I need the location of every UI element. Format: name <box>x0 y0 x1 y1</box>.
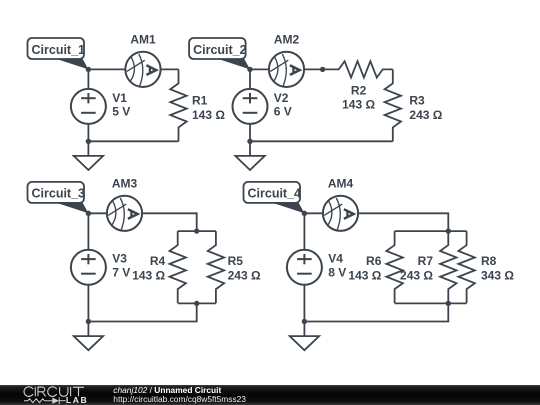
node junction top parallel c3 <box>194 228 199 233</box>
wire top elbow c4 <box>395 230 467 232</box>
svg-text:AM4: AM4 <box>328 176 354 190</box>
svg-text:Circuit_1: Circuit_1 <box>32 43 86 57</box>
svg-text:143 Ω: 143 Ω <box>192 108 225 122</box>
resistor R7 <box>440 231 456 303</box>
label R6 143 ohm <box>348 254 381 282</box>
svg-text:143 Ω: 143 Ω <box>342 97 375 111</box>
wire bottom rail c2 <box>250 140 393 142</box>
svg-text:R8: R8 <box>481 254 497 268</box>
wire V2 to bottom rail <box>249 124 251 141</box>
resistor R1 <box>170 69 186 141</box>
wire V1 to bottom rail <box>87 124 89 141</box>
wire node to V2 <box>249 69 251 89</box>
svg-text:http://circuitlab.com/cq8w5ft5: http://circuitlab.com/cq8w5ft5mss23 <box>113 394 246 404</box>
node junction top parallel c4 <box>446 228 451 233</box>
wire node to AM2 <box>250 68 269 70</box>
svg-text:V4: V4 <box>328 252 343 266</box>
label R7 243 ohm <box>400 254 433 282</box>
wire node to V4 <box>303 213 305 250</box>
wire AM1 to R1 <box>161 68 179 70</box>
wire V4 to bottom rail <box>303 285 305 322</box>
wire AM3 to corner <box>142 213 197 231</box>
wire node to V1 <box>87 69 89 89</box>
svg-text:243 Ω: 243 Ω <box>409 108 442 122</box>
wire bottom elbow c3 <box>178 302 216 304</box>
wire top elbow c3 <box>178 230 216 232</box>
node label Circuit_4 <box>244 182 305 213</box>
svg-text:243 Ω: 243 Ω <box>228 268 261 282</box>
svg-text:V3: V3 <box>112 252 127 266</box>
svg-text:8 V: 8 V <box>328 266 346 280</box>
wire node to V3 <box>87 213 89 250</box>
svg-text:143 Ω: 143 Ω <box>348 268 381 282</box>
node junction bottom parallel c3 <box>194 301 199 306</box>
svg-text:Circuit_4: Circuit_4 <box>248 187 302 201</box>
logo CIRCUIT skeleton letters <box>24 387 84 397</box>
node junction bottom c2 <box>247 139 252 144</box>
wire parallel to bottom rail c3 <box>88 303 196 321</box>
svg-text:143 Ω: 143 Ω <box>132 268 165 282</box>
ground c2 <box>235 141 264 170</box>
svg-text:R6: R6 <box>366 254 382 268</box>
svg-text:AM3: AM3 <box>112 176 138 190</box>
resistor R6 <box>386 231 402 303</box>
node label Circuit_3 <box>28 182 89 213</box>
svg-text:6 V: 6 V <box>274 105 292 119</box>
node A (Circuit_1 net junction) <box>86 67 91 72</box>
svg-text:AM1: AM1 <box>130 33 156 47</box>
ground c3 <box>74 322 103 351</box>
node label Circuit_2 <box>189 38 250 69</box>
svg-text:R2: R2 <box>351 83 367 97</box>
svg-text:V2: V2 <box>274 91 289 105</box>
node C (Circuit_3 net junction) <box>86 211 91 216</box>
ammeter AM2 <box>269 52 304 87</box>
svg-text:R7: R7 <box>418 254 434 268</box>
wire node to AM3 <box>88 212 107 214</box>
svg-text:R4: R4 <box>150 254 166 268</box>
voltage source V4 <box>287 250 322 285</box>
ground c4 <box>290 322 319 351</box>
node junction AM2-R2 <box>320 67 325 72</box>
wire AM4 to corner <box>358 213 448 231</box>
svg-text:AM2: AM2 <box>274 33 300 47</box>
resistor R2 (horizontal) <box>323 61 393 77</box>
voltage source V1 <box>71 89 106 124</box>
svg-text:343 Ω: 343 Ω <box>481 268 514 282</box>
ammeter AM1 <box>125 52 160 87</box>
wire bottom rail c1 <box>88 140 178 142</box>
wire V3 to bottom rail <box>87 285 89 322</box>
wire node to AM4 <box>304 212 323 214</box>
svg-text:Circuit_3: Circuit_3 <box>32 187 86 201</box>
wire parallel to bottom rail c4 <box>304 303 448 321</box>
wire AM2 to junction <box>304 68 323 70</box>
label R3 243 ohm <box>409 93 442 121</box>
wire node to AM1 <box>88 68 125 70</box>
svg-text:R3: R3 <box>409 93 425 107</box>
svg-text:243 Ω: 243 Ω <box>400 268 433 282</box>
label V1 5V <box>112 91 130 119</box>
node label Circuit_1 <box>28 38 89 69</box>
label R1 143 ohm <box>192 93 225 121</box>
ammeter AM4 <box>323 196 358 231</box>
label R8 343 ohm <box>481 254 514 282</box>
node junction bottom c4 <box>302 319 307 324</box>
svg-text:R1: R1 <box>192 93 208 107</box>
label V4 8V <box>328 252 346 280</box>
label V3 7V <box>112 252 130 280</box>
svg-text:LAB: LAB <box>66 395 88 405</box>
svg-text:Circuit_2: Circuit_2 <box>193 43 247 57</box>
wire bottom elbow c4 <box>395 302 467 304</box>
label R4 143 ohm <box>132 254 165 282</box>
resistor R4 <box>170 231 186 303</box>
svg-text:R5: R5 <box>228 254 244 268</box>
ammeter AM3 <box>107 196 142 231</box>
node junction bottom c3 <box>86 319 91 324</box>
svg-text:V1: V1 <box>112 91 127 105</box>
voltage source V2 <box>233 89 268 124</box>
node junction bottom parallel c4 <box>446 301 451 306</box>
resistor R5 <box>208 231 224 303</box>
node B (Circuit_2 net junction) <box>247 67 252 72</box>
ground c1 <box>74 141 103 170</box>
node junction bottom c1 <box>86 139 91 144</box>
label R2 143 ohm <box>342 83 375 111</box>
logo resistor-diode glyph <box>24 397 66 404</box>
label V2 6V <box>274 91 292 119</box>
label R5 243 ohm <box>228 254 261 282</box>
resistor R8 <box>458 231 474 303</box>
svg-text:5 V: 5 V <box>112 105 130 119</box>
resistor R3 <box>385 69 401 141</box>
node D (Circuit_4 net junction) <box>302 211 307 216</box>
svg-text:7 V: 7 V <box>112 266 130 280</box>
voltage source V3 <box>71 250 106 285</box>
